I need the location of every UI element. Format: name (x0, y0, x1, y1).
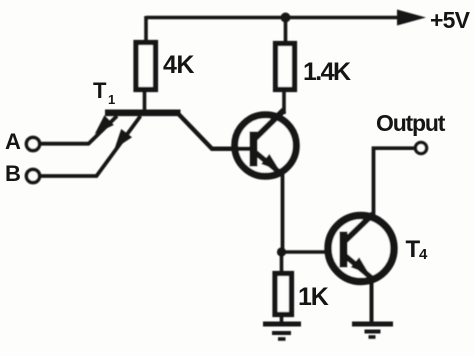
svg-text:B: B (5, 161, 21, 186)
svg-text:4: 4 (419, 246, 428, 263)
svg-text:Output: Output (376, 110, 446, 136)
svg-text:4K: 4K (163, 51, 194, 79)
svg-text:1: 1 (108, 92, 115, 107)
svg-text:+5V: +5V (430, 7, 471, 33)
svg-text:T: T (93, 78, 107, 103)
svg-text:1K: 1K (298, 283, 329, 311)
svg-text:1.4K: 1.4K (303, 58, 351, 86)
svg-text:A: A (5, 129, 21, 154)
